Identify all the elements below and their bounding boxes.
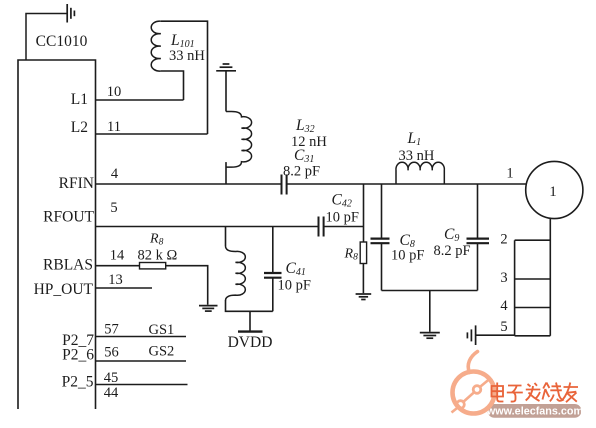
resistor R8 82k body [140,263,166,269]
wire R8 to ground [166,266,208,305]
svg-text:HP_OUT: HP_OUT [34,281,94,298]
watermark www.elecfans.com bar [486,404,583,418]
capacitor C31 8.2pF [282,175,287,195]
svg-text:2: 2 [500,232,507,248]
svg-text:10 pF: 10 pF [278,278,311,294]
svg-text:5: 5 [110,200,117,216]
wire pin 5 to ground [476,334,515,336]
wire P2_7 pin 57 GS1 [96,336,187,338]
inductor L1 33nH [396,162,444,184]
svg-text:P2_6: P2_6 [62,347,94,364]
wire L32 to RFIN line [225,162,227,184]
wire C9 upper lead [477,184,479,238]
svg-text:P2_5: P2_5 [62,374,94,391]
svg-text:56: 56 [104,345,119,361]
wire L101 top connector to pin 11 [161,21,208,134]
connector box [515,240,551,336]
wire HP_OUT pin 13 [96,287,153,289]
wire RF line C31 to antenna [287,183,526,185]
svg-text:8.2 pF: 8.2 pF [434,243,471,259]
wire C42 to node A [324,226,364,228]
svg-text:11: 11 [107,119,121,135]
svg-text:14: 14 [110,248,125,264]
wire inductor bottom to DVDD rail [226,300,273,311]
resistor R8 (matching) body [360,242,366,264]
wire C8 to bottom rail [381,243,383,290]
wire C9 to bottom rail [477,243,479,290]
ground (below R8 82k) [199,306,218,312]
svg-text:RFOUT: RFOUT [43,209,94,226]
antenna circle pin 1 [526,161,583,218]
svg-text:13: 13 [108,272,123,288]
wire P2_6 pin 56 GS2 [96,360,187,362]
svg-text:GS2: GS2 [149,344,175,360]
wire pin 11 L2 [96,133,208,135]
wire ground to L32 [225,71,227,112]
svg-text:45: 45 [104,370,119,386]
inductor L32 12nH [226,112,252,168]
wire L101 bottom connector [161,71,184,100]
IC U1 CC1010 box [18,60,96,409]
connector divider 2 [515,307,551,309]
wire pin 10 L1 [96,99,184,101]
svg-text:8.2 pF: 8.2 pF [283,164,320,180]
svg-text:10: 10 [107,84,122,100]
wire R8 matching to ground [362,264,364,294]
capacitor C8 10pF plates [371,239,390,244]
wire node B vertical (RF line to C8) [381,184,383,238]
svg-text:44: 44 [104,385,119,401]
svg-text:RBLAS: RBLAS [43,257,93,274]
power symbol DVDD bar [238,330,263,332]
wire node A vertical (RF line to R8) [363,184,365,242]
svg-text:33 nH: 33 nH [399,148,435,164]
wire RFOUT pin 5 [96,226,319,228]
svg-text:GS1: GS1 [149,322,175,338]
svg-text:57: 57 [104,322,119,338]
svg-text:CC1010: CC1010 [36,33,88,50]
svg-text:1: 1 [549,184,557,200]
svg-text:4: 4 [111,166,119,182]
ground (top right-facing, at CC1010 supply) [67,4,74,23]
capacitor C9 8.2pF plates [467,239,490,244]
watermark logo circle [452,352,495,414]
wire branch to DVDD inductor [225,227,227,247]
svg-text:10 pF: 10 pF [391,248,424,264]
wire P2_5 pins 45 44 [96,384,188,386]
svg-text:10 pF: 10 pF [326,210,359,226]
inductor (unlabeled, DVDD feed) [226,246,246,301]
wire AVDD to top ground [26,14,67,61]
wire bottom rail [382,290,478,292]
svg-text:www.elecfans.com: www.elecfans.com [486,406,583,418]
wire RFIN pin 4 [96,183,282,185]
wire RBLAS pin 14 [96,265,140,267]
inductor L101 33nH [151,21,161,71]
connector divider 1 [515,278,551,280]
svg-text:L1: L1 [71,91,88,108]
capacitor C41 lower lead [272,278,274,312]
capacitor C42 10pF [319,217,324,237]
svg-text:L2: L2 [71,119,88,136]
capacitor C41 10pF upper lead [272,227,274,273]
svg-text:1: 1 [506,166,513,182]
wire ground stub of matching network [429,291,431,332]
svg-text:RFIN: RFIN [59,175,94,192]
ground (matching network) [420,333,440,339]
svg-text:DVDD: DVDD [228,334,273,351]
wire antenna to connector [549,219,551,336]
watermark text dianzifashaoyou [492,383,579,403]
ground (inverted, above L32) [216,64,236,71]
svg-text:5: 5 [500,319,507,335]
svg-text:82 k Ω: 82 k Ω [138,247,178,263]
svg-text:33 nH: 33 nH [169,48,205,64]
svg-text:3: 3 [500,270,507,286]
ground (below matching R8) [356,294,372,300]
svg-text:4: 4 [500,298,508,314]
capacitor C41 plates [264,273,282,278]
wire DVDD stub [249,311,251,330]
ground (left-facing, connector pin 5) [467,325,475,345]
